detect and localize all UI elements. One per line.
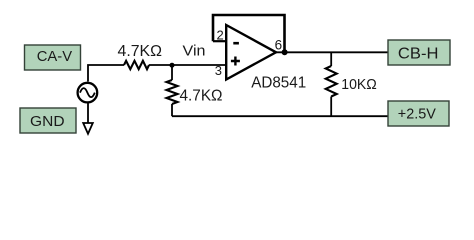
resistor R1: [124, 61, 149, 69]
pin number 6: [275, 37, 283, 52]
ground: [83, 123, 93, 134]
terminal box +2.5V: [388, 101, 449, 126]
AC source V1: [78, 83, 98, 103]
label node Vin: [183, 43, 206, 60]
label op-amp part AD8541: [251, 75, 306, 92]
node Vin junction dot: [170, 63, 175, 68]
terminal box GND: [20, 108, 76, 133]
wire R3 to bottom rail: [330, 97, 332, 117]
pin number 3: [215, 63, 222, 78]
wire Vin to resistor R2: [171, 65, 173, 80]
wire op-amp pin 2 stub: [213, 40, 227, 42]
wire R2 to bottom rail: [171, 104, 173, 116]
terminal box CB-H: [388, 40, 450, 65]
resistor R2: [167, 80, 178, 104]
terminal box CA-V: [25, 45, 81, 70]
svg-text:CB-H: CB-H: [398, 46, 439, 63]
svg-text:+2.5V: +2.5V: [398, 105, 436, 122]
svg-text:3: 3: [215, 63, 222, 78]
wire bottom rail to +2.5V: [172, 115, 388, 117]
wire feedback loop: [213, 15, 285, 52]
pin number 2: [217, 27, 224, 42]
wire op-amp output to CB-H: [276, 51, 388, 53]
svg-text:AD8541: AD8541: [251, 75, 306, 92]
resistor R3: [326, 66, 337, 96]
label R1 value 4.7KΩ: [118, 43, 163, 60]
svg-text:4.7KΩ: 4.7KΩ: [118, 43, 163, 60]
op-amp inverting input minus sign: [233, 42, 239, 45]
svg-text:CA-V: CA-V: [37, 48, 72, 65]
wire AC source to ground: [87, 103, 89, 123]
svg-text:10KΩ: 10KΩ: [341, 76, 377, 93]
label R3 value 10KΩ: [341, 76, 377, 93]
op-amp non-inverting input plus sign: [231, 57, 240, 66]
svg-text:6: 6: [275, 37, 283, 52]
op-amp U1: [226, 25, 276, 80]
wire R1 to op-amp pin 3: [149, 64, 226, 66]
svg-text:2: 2: [217, 27, 224, 42]
svg-text:4.7KΩ: 4.7KΩ: [180, 88, 223, 105]
svg-text:GND: GND: [30, 113, 65, 130]
svg-text:Vin: Vin: [183, 43, 206, 60]
label R2 value 4.7KΩ: [180, 88, 223, 105]
wire from AC source top to resistor R1: [88, 65, 124, 82]
output node junction dot: [282, 49, 288, 55]
wire output to resistor R3: [330, 52, 332, 66]
